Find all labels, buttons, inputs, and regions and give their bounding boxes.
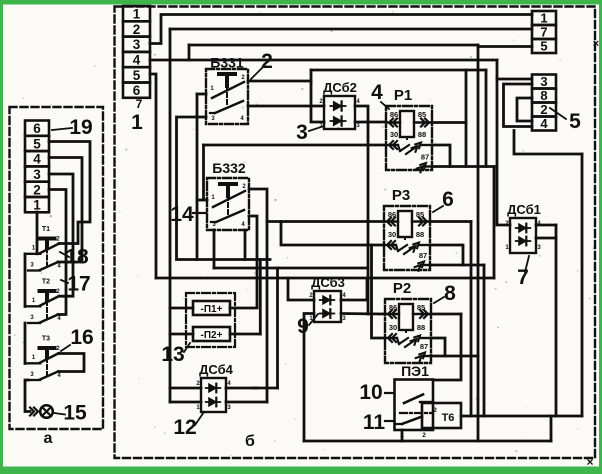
wire P2+ right to x260 xyxy=(230,333,260,336)
svg-text:15: 15 xyxy=(63,402,87,425)
svg-text:ДСб2: ДСб2 xyxy=(323,80,357,95)
switch B331 T symbol xyxy=(219,74,235,86)
wire B331 pin1 from left xyxy=(197,93,206,96)
diode block DSB4 pin labels xyxy=(196,381,231,411)
switch unit B332 box xyxy=(207,178,249,230)
svg-text:3: 3 xyxy=(133,37,141,52)
label 16 xyxy=(61,326,94,351)
svg-text:7: 7 xyxy=(136,97,143,111)
svg-text:87: 87 xyxy=(420,342,428,351)
wire h268 from x214 to x368 xyxy=(214,267,368,270)
wire P2 pin87 to x478 xyxy=(431,355,478,358)
switch T3 xyxy=(25,336,61,381)
svg-text:Т2: Т2 xyxy=(42,279,50,286)
label 12 xyxy=(173,412,204,439)
wire DSB2 pin3 to P1 pin86 xyxy=(355,121,386,124)
diode block DSB3 diode 1 xyxy=(320,296,335,305)
svg-text:88: 88 xyxy=(417,323,425,332)
wire B332 pin4 to x257 down to P1 plus xyxy=(249,216,257,308)
wire DSB4 pin3 to x267 xyxy=(226,401,267,404)
svg-text:30: 30 xyxy=(390,130,398,139)
diode block DSB1 box xyxy=(510,218,536,253)
wire P1+ left to x170 xyxy=(170,307,193,310)
label B332 xyxy=(212,160,246,176)
label 10 xyxy=(359,381,394,404)
switch PE1 divider xyxy=(400,412,432,414)
wire x461 down to PE1 top right xyxy=(433,314,461,380)
wire DSB3 pin1 to x304 down xyxy=(304,314,314,442)
wire x486 vertical bus5 down xyxy=(485,70,488,167)
switch B331 arm upper xyxy=(212,82,244,98)
wire T1 pin3 to T2 pin1 left bracket xyxy=(24,254,27,307)
wire right connector pin3 from x497 xyxy=(497,78,532,81)
svg-text:10: 10 xyxy=(359,381,382,404)
wire P1 pin88 stub xyxy=(432,145,450,167)
relay P3 xyxy=(384,187,454,271)
wire DSB1 pin3 to x556 xyxy=(536,237,556,240)
svg-text:30: 30 xyxy=(389,323,397,332)
contact T6 pin label xyxy=(433,407,437,414)
wire P2 pin85 to x461 xyxy=(431,313,461,316)
label PE1 xyxy=(401,363,429,379)
green scan border right xyxy=(599,0,602,474)
wire x478 from bus3 down to h441 xyxy=(477,45,480,441)
wire cell4-a to T1 pin4 xyxy=(49,158,82,263)
svg-text:1: 1 xyxy=(33,198,41,213)
switch B332 pin labels xyxy=(211,184,246,228)
wire DSB2 pin4 to x368 down xyxy=(355,106,368,314)
wire B331 pin3 to left bracket x176 xyxy=(177,117,271,260)
svg-text:12: 12 xyxy=(173,416,196,439)
wire bus3 y45 to right connector pin5 xyxy=(189,45,532,47)
svg-text:5: 5 xyxy=(33,136,41,151)
wire x260 riser to h259 xyxy=(259,260,262,335)
label 18 xyxy=(60,246,89,269)
label 1 (connector) xyxy=(131,111,143,134)
wire bus5 x311 to x486 xyxy=(311,69,486,72)
wire PE1 pin1 down to h441 xyxy=(401,430,404,441)
wire x484 down to h416 xyxy=(483,265,486,416)
svg-text:2: 2 xyxy=(261,50,273,73)
label 3 (DSB2) xyxy=(296,121,324,144)
svg-text:30: 30 xyxy=(388,230,396,239)
wire DSB3 pin4 to x367 xyxy=(341,299,367,302)
wire T3 right bracket pin2-pin4 xyxy=(59,354,85,372)
wire jumper inner pins8-4 on right connector xyxy=(517,98,532,121)
wire x367 riser to bus278 xyxy=(366,278,369,300)
svg-text:88: 88 xyxy=(418,130,426,139)
wire cell5-a to T1 pin2 xyxy=(49,142,90,244)
wire P2+ left to x170 xyxy=(170,333,193,336)
svg-text:ПЭ1: ПЭ1 xyxy=(401,363,429,379)
diode block DSB2 diode 1 xyxy=(330,101,345,110)
wire DSB3 pin2 from x288 xyxy=(288,278,314,300)
wire P2 pin88 stub xyxy=(431,338,445,356)
label DSB2 xyxy=(323,80,357,95)
svg-text:-П1+: -П1+ xyxy=(201,304,223,315)
label DSB4 xyxy=(199,362,234,377)
svg-text:6: 6 xyxy=(33,121,41,136)
wire T6 right to x582 xyxy=(461,415,582,418)
diode block DSB2 diode 2 xyxy=(330,116,345,125)
green scan border top xyxy=(0,0,602,5)
svg-text:Т1: Т1 xyxy=(42,226,50,233)
wire x494 down to bus278 xyxy=(493,167,496,279)
diode block DSB2 box xyxy=(324,96,355,129)
diode block DSB3 pin labels xyxy=(309,293,346,322)
lamp 15 xyxy=(40,405,53,418)
relay P2 xyxy=(385,280,456,363)
svg-text:6: 6 xyxy=(133,83,141,98)
wire B331 pin2 to x311 xyxy=(248,80,311,83)
wire connector pin4 bottom x514 down to h154 xyxy=(514,131,582,155)
wire B331 pin4 to DSB2 pin2 xyxy=(248,105,324,108)
wire x466 vertical xyxy=(465,70,468,167)
switch unit B331 box xyxy=(206,69,248,124)
wire P3 pin86 from B332 via h221 xyxy=(267,220,384,223)
wire cell1-a down to T1 pin1 xyxy=(36,212,39,254)
diode block DSB4 diode 2 xyxy=(206,398,221,407)
svg-text:8: 8 xyxy=(444,282,456,305)
wire x281 riser to P3 pin30 line xyxy=(281,222,384,246)
switch PE1 arm upper xyxy=(404,395,433,404)
switch T1 xyxy=(25,226,61,271)
scan mark top right x xyxy=(593,38,599,50)
wire x170 vertical feeder bus2 down to DSB4 xyxy=(169,29,172,402)
svg-text:7: 7 xyxy=(517,266,529,289)
svg-text:11: 11 xyxy=(363,411,386,434)
diode block DSB4 diode 1 xyxy=(206,384,221,393)
wire DSB4 pin2 from x170 xyxy=(170,387,201,390)
wire x277 down to DSB4 pin4 wire xyxy=(276,268,279,388)
label 11 xyxy=(363,411,394,434)
wire B332 pin1 stub xyxy=(197,199,207,202)
label 15 xyxy=(54,402,87,425)
svg-text:-П2+: -П2+ xyxy=(201,330,223,341)
switch PE1 box xyxy=(395,380,434,431)
svg-text:17: 17 xyxy=(67,273,90,296)
svg-text:Р1: Р1 xyxy=(394,87,412,104)
switch PE1 pin labels xyxy=(400,432,426,439)
label a (section) xyxy=(44,430,53,447)
connector block 19 (section a, pins 6-1) xyxy=(25,121,49,213)
svg-text:4: 4 xyxy=(371,81,383,104)
wire bus4 cell4 to x497 xyxy=(150,59,497,62)
svg-text:Б331: Б331 xyxy=(210,55,244,71)
switch B331 mech link xyxy=(226,86,228,106)
wire cell3-a to T2 pin2 xyxy=(49,174,73,296)
svg-text:13: 13 xyxy=(161,343,184,366)
svg-text:ДСб3: ДСб3 xyxy=(311,275,345,290)
label b (section) xyxy=(245,433,255,450)
svg-text:4: 4 xyxy=(33,152,41,167)
svg-text:8: 8 xyxy=(540,88,547,103)
green scan border bottom xyxy=(0,467,602,474)
diode block DSB1 diode 2 xyxy=(516,237,531,246)
svg-text:Р2: Р2 xyxy=(393,280,411,297)
svg-text:Т3: Т3 xyxy=(42,336,50,343)
diode block DSB3 diode 2 xyxy=(320,309,335,318)
wire T2 pin3 to T3 pin1 left bracket xyxy=(24,323,27,364)
wire bus3 riser at x189 xyxy=(188,45,191,60)
switch B332 arm lower xyxy=(211,210,244,222)
svg-text:2: 2 xyxy=(540,102,547,117)
wire x197 B331 pin1 to B332 pin1 and h259 xyxy=(196,94,199,260)
wire P1 pin30 long to x203 xyxy=(204,144,387,147)
diode block DSB4 box xyxy=(201,378,226,412)
wire DSB1 pin4 to x556 xyxy=(536,224,556,227)
green scan border left xyxy=(0,0,3,474)
svg-text:1: 1 xyxy=(540,11,547,26)
label DSB3 xyxy=(311,275,345,290)
switch B332 mech link xyxy=(227,196,229,216)
wire T3 pin3 down to lamp xyxy=(25,380,30,412)
wire x471 down to h416 xyxy=(470,222,473,417)
svg-text:14: 14 xyxy=(170,203,194,226)
wire DSB4 pin4 to x257 xyxy=(226,387,257,390)
svg-text:3: 3 xyxy=(33,167,41,182)
wire P1+ right to x257 xyxy=(230,307,257,310)
diode block DSB2 pin labels xyxy=(319,99,360,129)
wire bus1 cell3 up to y14.5 to right connector pin1 xyxy=(150,15,532,44)
label 17 xyxy=(61,273,91,296)
svg-text:×: × xyxy=(593,38,599,50)
wire P1 pin85 to x466 xyxy=(432,121,466,124)
wire B332 pin3 bottom riser to h268 xyxy=(213,230,216,268)
wire x203 down to B332 pin1 net xyxy=(202,145,205,200)
wire bottom loop h441 xyxy=(304,440,551,443)
svg-text:1: 1 xyxy=(133,7,141,22)
svg-text:Р3: Р3 xyxy=(392,187,410,204)
label 19 xyxy=(52,116,93,139)
wire cell5 to left bus x156 down to bus278 xyxy=(150,74,156,278)
wire DSB4 pin4 spur to x277 xyxy=(254,387,278,390)
label 9 (DSB3) xyxy=(297,314,318,338)
switch B331 pin labels xyxy=(210,75,245,122)
svg-text:16: 16 xyxy=(70,326,93,349)
label 7 (DSB1) xyxy=(517,256,529,289)
label 5 (connector) xyxy=(550,108,581,133)
section b dashed enclosure xyxy=(115,7,596,459)
wire cell2-a to T2 pin4 xyxy=(49,190,66,315)
connector block 5 (section b right, pins 1,7,5 / 3,8,2,4) xyxy=(532,11,556,132)
label 2 (B331) xyxy=(251,50,273,79)
svg-text:а: а xyxy=(44,430,53,447)
svg-text:5: 5 xyxy=(540,39,547,54)
svg-text:87: 87 xyxy=(421,153,429,162)
wire DSB3 pin3 to P2 pin86 xyxy=(341,312,385,315)
wire x582 from h154 down to h416 xyxy=(581,154,584,416)
wire B332 pin2 to x267 down xyxy=(249,189,267,402)
svg-text:ДСб4: ДСб4 xyxy=(199,362,234,377)
label 14 xyxy=(170,203,206,226)
label T6 xyxy=(442,412,455,424)
wire x556 down to h416 xyxy=(555,225,558,416)
svg-text:2: 2 xyxy=(422,432,426,439)
svg-text:88: 88 xyxy=(416,230,424,239)
switch B331 arm lower xyxy=(210,101,243,113)
svg-text:3: 3 xyxy=(296,121,308,144)
switch B332 T symbol xyxy=(220,184,236,196)
svg-text:ДСб1: ДСб1 xyxy=(507,202,541,217)
svg-text:4: 4 xyxy=(133,53,141,68)
relay P1 xyxy=(371,81,432,172)
cell P2+ box xyxy=(193,327,230,341)
svg-text:Б332: Б332 xyxy=(212,160,246,176)
svg-text:2: 2 xyxy=(433,407,437,414)
wire P1 pin87 to x494 xyxy=(432,165,494,168)
wire x371 from h245 to P2 pin30 xyxy=(372,245,386,338)
lamp 15 connector chevrons xyxy=(30,408,38,416)
svg-text:×: × xyxy=(586,455,593,469)
unit 13 box xyxy=(186,293,235,347)
diode block DSB3 box xyxy=(314,291,341,322)
wire bus2 x170 to right connector pin7 xyxy=(170,28,532,31)
scan mark bottom right x xyxy=(586,455,593,469)
contact block T6 box xyxy=(422,403,461,428)
svg-text:2: 2 xyxy=(33,182,41,197)
wire bus4 x497 down to DSB1 pin2 xyxy=(497,60,510,225)
switch B332 arm upper xyxy=(213,191,245,207)
wire bus278 horizontal xyxy=(156,277,494,280)
cell P1+ box xyxy=(193,301,230,315)
label B331 xyxy=(210,55,244,71)
svg-text:5: 5 xyxy=(569,110,581,133)
svg-text:1: 1 xyxy=(131,111,143,134)
diode block DSB1 diode 1 xyxy=(516,224,531,233)
wire jumper outer pins3-4 on right connector xyxy=(504,84,533,127)
svg-text:4: 4 xyxy=(540,116,548,131)
svg-text:Т6: Т6 xyxy=(442,412,455,424)
switch PE1 arm lower xyxy=(396,417,422,425)
svg-text:6: 6 xyxy=(442,188,454,211)
wire x551 riser to h416 xyxy=(550,416,553,441)
section a dashed enclosure xyxy=(10,107,104,429)
wire P3 pin85 to x471 xyxy=(430,220,471,223)
svg-text:87: 87 xyxy=(419,251,427,260)
label 13 xyxy=(161,343,190,366)
wire x311 riser bus5 to DSB2 pin1 xyxy=(311,70,324,122)
diode block DSB1 pin labels xyxy=(505,221,541,251)
svg-text:3: 3 xyxy=(540,74,547,89)
switch T2 xyxy=(25,279,61,324)
svg-text:7: 7 xyxy=(540,25,547,40)
wire DSB4 pin1 from x170 xyxy=(170,401,201,404)
label DSB1 xyxy=(507,202,541,217)
wire P3 pin88 stub xyxy=(430,245,463,265)
svg-text:2: 2 xyxy=(133,22,141,37)
svg-text:б: б xyxy=(245,433,255,450)
wire P3 pin87 to x484 xyxy=(430,264,484,267)
connector block 1 (section b left, pins 1-7) xyxy=(123,6,150,111)
svg-text:5: 5 xyxy=(133,68,141,83)
wire B332 pin3 bottom to h260 xyxy=(244,230,247,260)
